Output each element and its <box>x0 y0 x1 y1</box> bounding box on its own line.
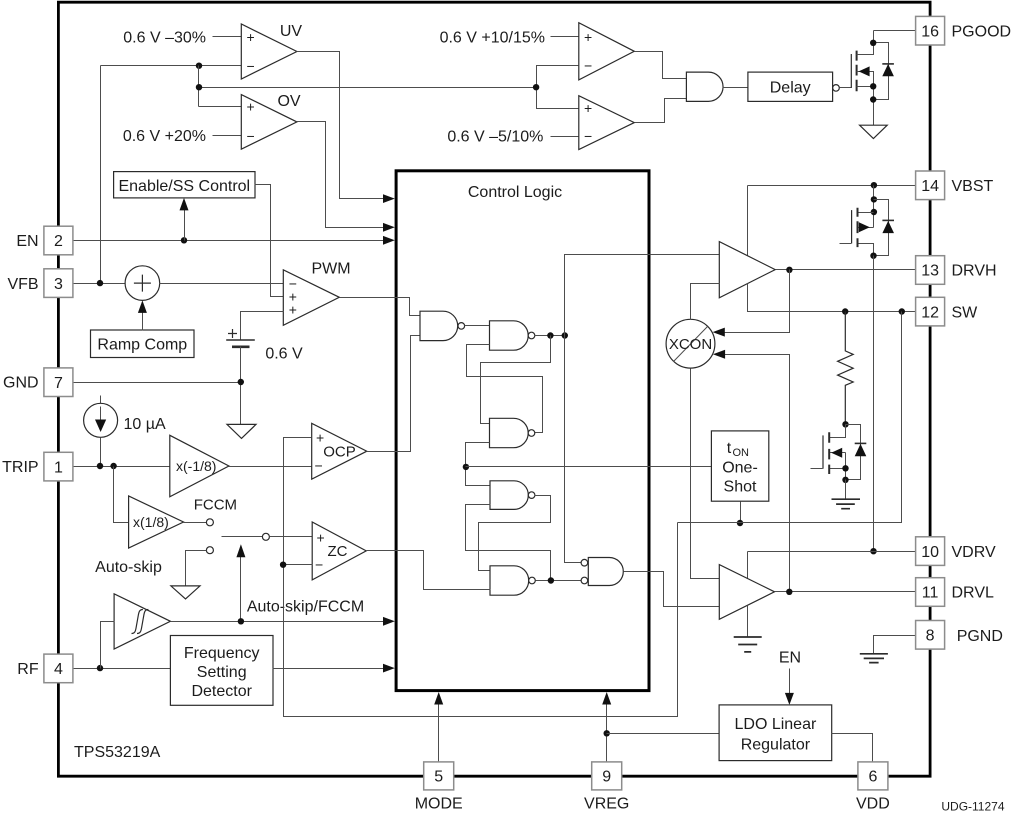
svg-text:+: + <box>584 29 592 45</box>
and gate PG <box>686 72 723 101</box>
wire OCP output into gate A <box>367 336 421 452</box>
wire low driver to ground <box>747 606 749 637</box>
svg-text:−: − <box>315 457 323 473</box>
wire Auto-skip contact to ground <box>186 551 207 586</box>
wire battery to PWM third input <box>241 312 284 341</box>
node RF <box>97 665 103 671</box>
svg-text:+: + <box>247 29 255 45</box>
svg-text:Frequency: Frequency <box>184 645 260 662</box>
wire XCON to high driver <box>691 284 720 320</box>
svg-text:x(1/8): x(1/8) <box>133 514 169 530</box>
svg-text:PWM: PWM <box>311 261 350 278</box>
control logic box <box>396 171 649 691</box>
svg-text:XCON: XCON <box>669 336 712 353</box>
arrowhead mode select <box>236 544 245 557</box>
switch arm <box>222 536 263 538</box>
svg-text:9: 9 <box>602 769 611 786</box>
pin 14 VBST <box>916 171 945 200</box>
svg-text:Detector: Detector <box>191 683 252 700</box>
node one-shot trigger <box>463 464 469 470</box>
wire EN to control logic <box>73 240 385 242</box>
svg-text:8: 8 <box>926 628 935 645</box>
arrow into XCON bottom <box>713 350 725 359</box>
svg-text:Regulator: Regulator <box>741 737 811 754</box>
wire PWM output into gate A <box>340 298 421 316</box>
node B out b <box>562 332 568 338</box>
svg-text:Delay: Delay <box>770 80 811 97</box>
wire GND pin <box>73 382 241 384</box>
wire PG lower minus input <box>551 136 579 138</box>
svg-text:14: 14 <box>921 178 939 195</box>
comparator PG upper <box>579 23 635 80</box>
body diode PGOOD FET <box>874 43 894 100</box>
wire B out down to gate F <box>565 336 582 563</box>
driver DRVH <box>719 242 775 298</box>
body diode bootstrap FET <box>874 200 895 256</box>
wire PG upper output to AND <box>635 52 687 79</box>
node SW FET source <box>842 465 848 471</box>
svg-text:Ramp Comp: Ramp Comp <box>97 336 187 353</box>
battery 0.6V <box>226 329 255 347</box>
pin 3 VFB <box>44 269 73 298</box>
ground below battery <box>227 424 256 438</box>
pin 9 VREG <box>592 762 622 790</box>
pin 12 SW <box>916 297 945 326</box>
wire C out to gate B bottom input <box>467 345 543 433</box>
svg-text:0.6 V: 0.6 V <box>265 346 303 363</box>
wire OCP plus to current sense net <box>284 438 678 717</box>
svg-text:2: 2 <box>54 233 63 250</box>
arrow up into Enable/SS <box>180 198 189 211</box>
svg-text:0.6 V –30%: 0.6 V –30% <box>123 30 206 47</box>
transistor bootstrap switch <box>840 186 878 256</box>
svg-text:UV: UV <box>280 23 303 40</box>
wire ZC minus stub <box>284 564 313 566</box>
comparator hysteresis RF <box>114 594 170 649</box>
comparator OCP <box>312 423 367 479</box>
wire DRVH sense into XCON <box>725 270 790 333</box>
box LDO Linear Regulator <box>719 705 832 761</box>
svg-text:VDD: VDD <box>856 796 890 813</box>
svg-text:DRVL: DRVL <box>952 585 994 602</box>
wire Delay to PGOOD FET gate <box>840 87 852 89</box>
wire ZC output to gate E bottom input <box>367 551 491 590</box>
box Enable/SS Control <box>114 172 255 198</box>
svg-text:5: 5 <box>434 769 443 786</box>
comparator PWM <box>283 270 339 326</box>
arrow into control logic EN <box>383 236 395 245</box>
ground low driver <box>734 637 762 652</box>
svg-text:LDO Linear: LDO Linear <box>734 716 816 733</box>
wire Ramp Comp to summing <box>142 311 144 331</box>
box Frequency Setting Detector <box>170 636 273 706</box>
node PGOOD source body <box>870 83 876 89</box>
arrow into control logic UV <box>383 194 395 203</box>
wire VBST rail <box>748 185 916 187</box>
wire to tON one-shot <box>466 466 712 468</box>
node PG sense <box>196 84 202 90</box>
wire B out to gate C top input <box>481 336 551 424</box>
pin 5 MODE <box>424 762 454 790</box>
wire VDRV to low driver power <box>747 552 749 579</box>
svg-text:SW: SW <box>952 304 979 321</box>
node bootstrap source <box>870 253 876 259</box>
wire driver to SW <box>748 284 916 312</box>
svg-text:0.6 V +10/15%: 0.6 V +10/15% <box>440 29 545 46</box>
svg-text:Control Logic: Control Logic <box>468 184 562 201</box>
node B out a <box>547 332 553 338</box>
node VFB <box>97 280 103 286</box>
transistor SW low-side <box>811 425 846 480</box>
svg-text:1: 1 <box>54 459 63 476</box>
ground PGND <box>860 654 888 663</box>
pin 13 DRVH <box>916 256 945 285</box>
comparator UV <box>241 24 297 79</box>
switch pole <box>262 533 269 540</box>
svg-text:DRVH: DRVH <box>952 263 997 280</box>
wire gate F output to low driver <box>624 572 720 607</box>
wire tON output <box>740 502 742 523</box>
svg-text:OV: OV <box>277 93 300 110</box>
node TRIP b <box>110 463 116 469</box>
summing junction <box>125 266 160 301</box>
arrow up into summing <box>138 300 147 313</box>
wire gate B output <box>535 335 565 337</box>
nand gate A <box>420 311 458 340</box>
svg-text:+: + <box>289 301 297 317</box>
arrow down into LDO <box>785 693 794 705</box>
circle XCON <box>666 319 715 368</box>
wire OV plus input <box>199 106 242 108</box>
nand gate E <box>490 566 529 595</box>
wire battery to GND net <box>240 347 242 425</box>
svg-text:−: − <box>247 128 255 144</box>
svg-text:3: 3 <box>54 276 63 293</box>
svg-text:+: + <box>584 100 592 116</box>
svg-text:PGOOD: PGOOD <box>952 24 1011 41</box>
wire PGOOD to pin 16 <box>874 30 916 32</box>
wire node to PG comparators <box>199 66 537 107</box>
wire detector output to control logic <box>273 668 385 670</box>
node PGOOD drain <box>870 40 876 46</box>
wire B out up to high driver input <box>565 255 720 336</box>
svg-text:13: 13 <box>921 263 939 280</box>
svg-text:10: 10 <box>921 544 939 561</box>
wire PG lower output to AND <box>635 99 687 123</box>
wire x(-1/8) to OCP minus <box>229 466 312 468</box>
svg-text:ON: ON <box>733 447 750 459</box>
wire EN to Enable/SS <box>184 209 186 241</box>
svg-text:4: 4 <box>54 661 63 678</box>
box Delay <box>748 72 833 101</box>
wire gate C bottom input from one-shot net <box>466 443 491 486</box>
svg-text:OCP: OCP <box>323 443 356 460</box>
pin 8 PGND <box>916 621 945 650</box>
wire bootstrap source to VDRV <box>873 256 875 552</box>
wire RF input <box>73 668 171 670</box>
svg-text:0.6 V +20%: 0.6 V +20% <box>123 128 206 145</box>
ground SW FET <box>832 480 861 509</box>
box Ramp Comp <box>91 330 195 358</box>
svg-text:+: + <box>247 99 255 115</box>
wire TRIP <box>73 466 170 468</box>
node SW on-time tap <box>899 308 905 314</box>
box tON one-shot <box>711 431 768 501</box>
svg-text:One-: One- <box>722 459 758 476</box>
driver DRVL <box>719 565 774 620</box>
wire pole to ZC plus <box>270 536 313 538</box>
wire Enable/SS output to PWM <box>255 185 284 297</box>
arrow into control logic OV <box>383 223 395 232</box>
wire mode select arrow <box>240 557 242 622</box>
wire DRVL sense into XCON <box>725 355 790 592</box>
svg-text:Auto-skip: Auto-skip <box>95 559 162 576</box>
node TRIP a <box>97 463 103 469</box>
pin 1 TRIP <box>44 452 73 481</box>
arrow into control logic detector <box>383 664 395 673</box>
wire OV minus input <box>213 135 242 137</box>
nand gate B <box>490 321 529 350</box>
node battery GND <box>238 379 244 385</box>
wire UV plus input <box>213 36 242 38</box>
svg-text:0.6 V –5/10%: 0.6 V –5/10% <box>447 129 543 146</box>
wire TRIP to x(1/8) <box>114 467 129 523</box>
svg-text:MODE: MODE <box>415 796 463 813</box>
svg-text:ZC: ZC <box>328 543 348 560</box>
body diode SW FET <box>846 425 867 480</box>
wire EN to LDO <box>789 669 791 697</box>
wire LDO input from VDD <box>832 734 873 762</box>
wire XCON to low driver <box>691 369 720 579</box>
svg-text:Shot: Shot <box>724 479 757 496</box>
svg-text:11: 11 <box>922 585 939 602</box>
svg-text:TPS53219A: TPS53219A <box>74 744 161 761</box>
wire VBST to high driver power <box>747 186 749 256</box>
wire summing to PWM minus <box>160 283 284 285</box>
comparator OV <box>241 95 297 150</box>
svg-text:16: 16 <box>921 23 939 40</box>
wire DRVL output <box>775 591 916 593</box>
wire PGND to ground <box>874 636 918 654</box>
svg-text:VFB: VFB <box>7 276 38 293</box>
wire LDO output to VREG <box>607 733 720 735</box>
wire x(1/8) output <box>184 522 207 524</box>
current source 10uA <box>84 396 118 467</box>
amp x(1/8) <box>129 496 184 548</box>
wire gate A out to gate B <box>465 325 490 327</box>
node DRVL <box>786 589 792 595</box>
arrow up from MODE <box>438 703 440 763</box>
svg-text:RF: RF <box>17 661 39 678</box>
switch contact FCCM <box>206 519 213 526</box>
wire VFB sense vertical <box>100 66 102 284</box>
svg-text:VBST: VBST <box>952 178 994 195</box>
node auto-skip select <box>238 618 244 624</box>
svg-text:Auto-skip/FCCM: Auto-skip/FCCM <box>247 598 364 615</box>
wire D out to gate E top input <box>479 496 551 571</box>
node SW FET diode <box>842 477 848 483</box>
svg-text:EN: EN <box>16 233 38 250</box>
svg-text:Setting: Setting <box>197 664 247 681</box>
node VBST <box>871 182 877 188</box>
svg-text:−: − <box>584 58 592 74</box>
wire VFB <box>73 283 126 285</box>
svg-text:6: 6 <box>868 769 877 786</box>
node PG sense right <box>533 84 539 90</box>
svg-text:FCCM: FCCM <box>194 496 237 513</box>
amp x(-1/8) <box>170 435 229 497</box>
pin 10 VDRV <box>916 537 945 566</box>
svg-text:7: 7 <box>54 375 63 392</box>
svg-text:x(-1/8): x(-1/8) <box>176 458 216 474</box>
svg-text:−: − <box>315 557 323 573</box>
node PGOOD source diode <box>870 96 876 102</box>
pin 16 PGOOD <box>916 16 945 45</box>
pin 7 GND <box>44 368 73 397</box>
svg-text:GND: GND <box>3 375 39 392</box>
node DRVH <box>786 267 792 273</box>
svg-text:VDRV: VDRV <box>952 544 996 561</box>
svg-text:Enable/SS Control: Enable/SS Control <box>118 178 250 195</box>
svg-text:10 µA: 10 µA <box>124 416 166 433</box>
pin 4 RF <box>44 654 73 683</box>
svg-text:−: − <box>584 128 592 144</box>
comparator ZC <box>312 522 366 580</box>
wire VDRV rail <box>748 551 916 553</box>
switch contact Auto-skip <box>206 547 213 554</box>
wire E out to gate D bottom input <box>466 505 551 581</box>
hysteresis glyph <box>132 610 149 634</box>
node bootstrap at VDRV <box>870 548 876 554</box>
ground PGOOD FET <box>860 125 888 138</box>
wire PG upper plus input <box>551 36 579 38</box>
svg-text:12: 12 <box>921 304 939 321</box>
arrow into XCON top <box>713 328 725 337</box>
svg-text:−: − <box>247 58 255 74</box>
node EN <box>181 237 187 243</box>
node ZC minus <box>280 562 286 568</box>
svg-text:EN: EN <box>779 650 801 667</box>
svg-text:VREG: VREG <box>584 796 629 813</box>
node VREG to LDO <box>604 730 610 736</box>
svg-text:+: + <box>317 529 325 545</box>
wire AND to Delay <box>723 87 748 89</box>
node E out <box>548 577 554 583</box>
pin 6 VDD <box>858 762 888 790</box>
wire RF to hysteresis <box>101 622 115 669</box>
node tON <box>737 520 743 526</box>
inverter bubble Delay output <box>833 85 840 92</box>
arrow into control logic auto-skip <box>383 617 395 626</box>
nand gate F output stage <box>588 558 623 586</box>
wire PG sense vertical <box>537 66 579 109</box>
transistor PGOOD open-drain <box>851 31 873 126</box>
pin 2 EN <box>44 226 73 255</box>
wire hysteresis output to control logic <box>171 621 385 623</box>
wire E out to gate F <box>536 580 582 582</box>
nand gate D <box>490 481 528 510</box>
node UVminus <box>196 62 202 68</box>
wire UV output to control logic <box>297 52 385 199</box>
nand gate C <box>490 418 529 447</box>
svg-text:PGND: PGND <box>957 628 1003 645</box>
svg-text:t: t <box>727 440 732 457</box>
node low FET drain <box>842 421 848 427</box>
wire on-time to SW <box>678 312 902 523</box>
wire DRVH output <box>776 269 916 271</box>
resistor SW <box>838 312 854 425</box>
ground at Auto-skip contact <box>171 586 200 599</box>
comparator PG lower <box>579 96 635 150</box>
arrow up from VREG <box>606 703 608 763</box>
svg-text:UDG-11274: UDG-11274 <box>941 800 1004 814</box>
svg-text:TRIP: TRIP <box>2 459 38 476</box>
node SW resistor tap <box>842 308 848 314</box>
wire UV minus input from node VFB sense <box>101 65 242 67</box>
pin 11 DRVL <box>916 578 945 607</box>
wire OV output to control logic <box>297 122 385 228</box>
